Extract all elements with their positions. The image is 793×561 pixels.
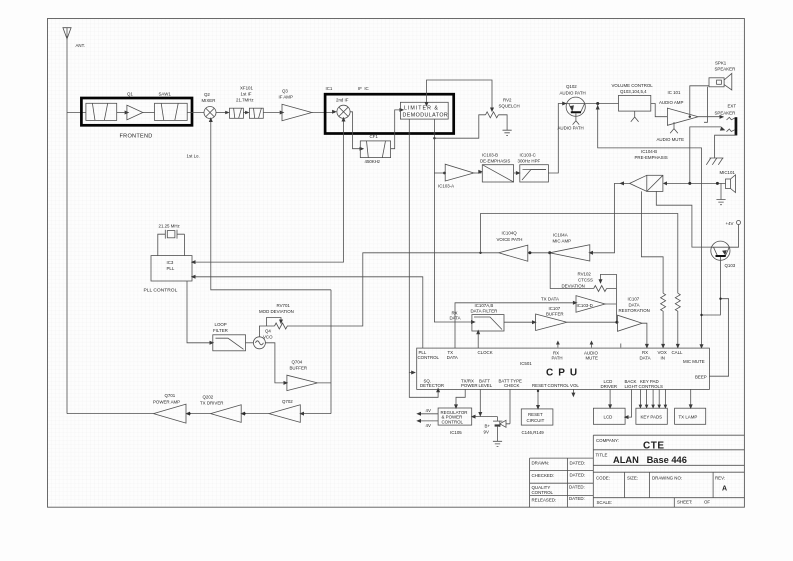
wire mic to ground <box>720 183 722 199</box>
amplifier IC104Q VOICE PATH <box>497 231 528 262</box>
wire jack contact to mic line <box>690 127 721 183</box>
wire squelch feedback to demod top <box>425 80 495 112</box>
amplifier IC104-B PRE-EMPHASIS <box>630 149 668 191</box>
filter XF101 1st IF 21.7MHz <box>225 85 263 118</box>
svg-text:BUFFER: BUFFER <box>290 366 308 371</box>
svg-text:DEMODULATOR: DEMODULATOR <box>403 113 449 119</box>
svg-text:LOOP: LOOP <box>215 322 227 327</box>
svg-text:OF: OF <box>704 500 710 505</box>
pin label BATT LEVEL <box>479 378 493 388</box>
svg-text:Q2: Q2 <box>204 92 210 97</box>
resistor R call <box>675 293 680 347</box>
svg-text:SAW1: SAW1 <box>159 92 172 97</box>
svg-text:Q102: Q102 <box>566 84 577 89</box>
wire PLL to loop filter <box>187 281 212 343</box>
wire squelch right to ground <box>498 115 507 130</box>
svg-text:DATA: DATA <box>450 315 461 320</box>
svg-text:CONTROL VOL: CONTROL VOL <box>548 383 580 388</box>
wire <box>216 112 228 114</box>
wire 4V output lower <box>416 419 438 428</box>
svg-text:LIGHT: LIGHT <box>625 384 638 389</box>
svg-text:PLL: PLL <box>167 266 175 271</box>
node audio-mute tap <box>596 102 599 105</box>
chassis ground at jack <box>706 158 723 165</box>
node demod audio branch <box>443 172 446 175</box>
svg-text:KEY PADS: KEY PADS <box>641 415 663 420</box>
svg-text:CLOCK: CLOCK <box>478 350 493 355</box>
svg-text:SHEET:: SHEET: <box>677 500 692 505</box>
svg-text:RV701: RV701 <box>277 303 291 308</box>
svg-text:LCD: LCD <box>604 415 613 420</box>
svg-text:CONTROL: CONTROL <box>532 490 554 495</box>
svg-text:VCO: VCO <box>263 334 273 339</box>
pin stub unlabeled <box>620 344 622 348</box>
wire jack sleeve to ground <box>715 135 737 158</box>
oscillator Q4 VCO <box>253 328 273 349</box>
title block code row <box>596 476 727 493</box>
node jack-mic junction <box>688 182 691 185</box>
svg-text:RV102: RV102 <box>578 272 592 277</box>
amplifier Q202 TX DRIVER <box>200 394 241 422</box>
svg-text:1st Lo.: 1st Lo. <box>187 154 200 159</box>
svg-text:SPEAKER: SPEAKER <box>715 111 736 116</box>
wire BACK LIGHT to LCD <box>624 389 632 419</box>
svg-text:IN: IN <box>661 355 665 360</box>
amplifier IC104A MIC AMP <box>550 232 590 261</box>
svg-text:Q103,104,5,4: Q103,104,5,4 <box>620 89 647 94</box>
svg-text:PLL CONTROL: PLL CONTROL <box>144 287 178 293</box>
speaker SPK1 <box>709 61 735 91</box>
svg-text:IF IC: IF IC <box>358 86 369 91</box>
wire <box>117 112 125 114</box>
svg-text:9V: 9V <box>484 430 489 435</box>
svg-text:DATA: DATA <box>640 355 651 360</box>
label RX DATA <box>450 310 461 320</box>
svg-text:IC103-B: IC103-B <box>482 153 498 158</box>
svg-text:DATA FILTER: DATA FILTER <box>471 308 498 313</box>
amplifier Q1 <box>125 92 143 120</box>
svg-text:2nd IF: 2nd IF <box>336 98 349 103</box>
title block title row <box>596 452 687 465</box>
wire TX LAMP pin <box>689 389 693 409</box>
svg-text:IC104Q: IC104Q <box>502 231 518 236</box>
svg-text:IC107A,B: IC107A,B <box>475 303 494 308</box>
wire <box>312 112 335 114</box>
svg-text:Q702: Q702 <box>282 399 293 404</box>
ground below battery <box>493 441 502 446</box>
svg-text:FRONTEND: FRONTEND <box>120 133 153 139</box>
wire VCO top to mod pot <box>259 326 266 337</box>
svg-text:SIZE:: SIZE: <box>627 476 638 481</box>
wire <box>263 112 279 114</box>
svg-text:21.25 MHz: 21.25 MHz <box>159 224 180 229</box>
amplifier Q3 IF AMP <box>279 89 312 121</box>
pin label BATT TYPE CHECK <box>499 378 522 388</box>
microphone MIC101 <box>720 170 736 193</box>
svg-text:EXT: EXT <box>728 104 737 109</box>
node mic amp output <box>548 251 551 254</box>
wire pre-emphasis vox tap to resistor <box>641 191 663 293</box>
svg-text:Q1: Q1 <box>127 92 133 97</box>
IC1 IF IC block <box>325 86 454 134</box>
svg-text:CHECK: CHECK <box>504 383 519 388</box>
wire 4V output upper <box>416 408 438 416</box>
page border frame <box>48 19 745 508</box>
svg-text:B+: B+ <box>485 424 491 429</box>
wire audio mute line down-right <box>596 104 704 349</box>
svg-text:CF1: CF1 <box>370 134 379 139</box>
svg-text:CONTROL: CONTROL <box>442 419 464 424</box>
svg-text:TX LAMP: TX LAMP <box>679 415 698 420</box>
wire IC103-D output to ctcss node <box>605 289 616 323</box>
filter IC103-C 300Hz HPF <box>518 153 549 182</box>
svg-text:MOD DEVIATION: MOD DEVIATION <box>259 309 294 314</box>
ground below mic <box>716 200 725 205</box>
amplifier IC103-A <box>438 164 474 188</box>
potentiometer RV102 CTCSS DEVIATION <box>562 272 617 292</box>
wire pre-emphasis to Q103 base <box>656 191 712 247</box>
svg-text:AUDIO PATH: AUDIO PATH <box>560 90 586 95</box>
wire to Q702 <box>302 413 332 415</box>
box REGULATOR & POWER CONTROL IC105 <box>438 408 472 435</box>
svg-text:KEY PAD: KEY PAD <box>640 379 659 384</box>
wire demod output B down to data filter <box>433 119 475 324</box>
svg-text:Q4: Q4 <box>265 328 271 333</box>
wire data filter to buffer <box>504 321 535 323</box>
svg-text:TITLE: TITLE <box>596 452 608 457</box>
pin label VOX IN <box>658 350 667 360</box>
wire <box>187 112 204 114</box>
wire Q103 emitter down to mic mute line <box>702 257 721 315</box>
pin label KEY PAD CONTROLS <box>639 379 663 389</box>
box TX LAMP <box>675 408 706 424</box>
filter LOOP FILTER <box>213 322 246 351</box>
svg-text:DE-EMPHASIS: DE-EMPHASIS <box>480 158 510 163</box>
svg-text:IC103-A: IC103-A <box>438 184 454 189</box>
svg-text:MIC101: MIC101 <box>720 170 736 175</box>
svg-text:TX DRIVER: TX DRIVER <box>200 401 223 406</box>
svg-text:LEVEL: LEVEL <box>479 383 493 388</box>
pin RX PATH stub <box>552 341 563 361</box>
svg-text:LIMITER &: LIMITER & <box>404 105 439 111</box>
wire <box>246 342 254 344</box>
wire audio amp output to ext speaker jack <box>698 115 734 120</box>
filter CF1 450KHz <box>360 134 390 164</box>
filter FL1 <box>86 103 117 120</box>
svg-text:RV2: RV2 <box>503 98 512 103</box>
amplifier Q704 BUFFER <box>287 359 318 390</box>
box LCD <box>593 408 625 424</box>
wire antenna stem <box>66 39 68 414</box>
svg-text:IC107: IC107 <box>628 297 640 302</box>
svg-text:AUDIO AMP: AUDIO AMP <box>659 100 683 105</box>
wire to BATT TYPE CHECK <box>509 389 511 423</box>
wire buffer to data restoration <box>567 321 618 323</box>
wire to IC103-A <box>434 172 445 174</box>
wire <box>514 172 519 174</box>
mixer 2nd IF <box>332 98 350 119</box>
svg-text:MIXER: MIXER <box>202 98 216 103</box>
wire restoration output to CPU RX DATA <box>642 323 647 348</box>
wire VCO output to buffer <box>265 343 285 383</box>
svg-text:IF AMP: IF AMP <box>279 95 293 100</box>
svg-text:IC501: IC501 <box>520 361 532 366</box>
svg-text:IC105: IC105 <box>450 430 462 435</box>
filter IC107A,B DATA FILTER <box>471 303 505 331</box>
svg-text:ALAN Base 446: ALAN Base 446 <box>613 455 687 465</box>
svg-text:POWER AMP: POWER AMP <box>153 399 180 404</box>
wire 2nd LO from mixer to PLL <box>191 117 346 264</box>
svg-text:Q701: Q701 <box>165 393 176 398</box>
wire battery ground <box>497 427 499 442</box>
box RESET CIRCUIT C146,R149 <box>521 409 553 435</box>
svg-text:COMPANY:: COMPANY: <box>596 438 619 443</box>
svg-text:A: A <box>722 486 727 493</box>
svg-text:CPU: CPU <box>546 368 582 379</box>
IC3 PLL box <box>144 256 193 294</box>
svg-text:DATA: DATA <box>629 302 640 307</box>
svg-text:REV:: REV: <box>715 476 725 481</box>
approvals table <box>530 458 594 507</box>
svg-text:POWER: POWER <box>461 383 478 388</box>
amplifier IC103-D <box>576 296 605 313</box>
crystal 21.25 MHz <box>158 224 185 256</box>
amplifier Q701 POWER AMP <box>153 393 186 423</box>
pin label TX/RX POWER <box>461 378 478 388</box>
svg-text:RESET: RESET <box>532 383 547 388</box>
svg-text:BEEP: BEEP <box>695 375 707 380</box>
svg-text:DATA: DATA <box>447 355 458 360</box>
svg-text:CHECKED:: CHECKED: <box>532 473 555 478</box>
wire BATT LEVEL pin <box>479 389 481 414</box>
svg-text:TX DATA: TX DATA <box>541 297 559 302</box>
wire clock pin <box>476 330 480 349</box>
svg-text:DRAWN:: DRAWN: <box>532 460 550 465</box>
wire Q701 to antenna <box>67 413 154 415</box>
node squelch-demod junction <box>433 137 435 139</box>
svg-text:DEVIATION: DEVIATION <box>562 283 585 288</box>
svg-text:300Hz HPF: 300Hz HPF <box>518 158 541 163</box>
wire TX DATA from CPU to IC103-D <box>455 297 578 349</box>
svg-text:SPK1: SPK1 <box>715 61 727 66</box>
wire speaker second lead <box>704 87 707 123</box>
title block scale row <box>597 500 711 506</box>
wire mixer to CF1 <box>350 112 359 149</box>
svg-text:+4V: +4V <box>726 221 734 226</box>
wire BEEP to Q103 emitter <box>709 299 728 377</box>
svg-text:SPEAKER: SPEAKER <box>715 67 736 72</box>
svg-text:CTE: CTE <box>643 440 665 451</box>
wire loop to SQ detector pin <box>409 373 440 398</box>
jack EXT SPEAKER <box>715 104 738 136</box>
ground below squelch <box>503 130 512 135</box>
amplifier IC107 BUFFER <box>536 306 567 330</box>
wire RV102 left to mic amp output <box>550 253 594 289</box>
svg-text:FILTER: FILTER <box>213 328 228 333</box>
wire mic lead <box>665 182 726 184</box>
title block company row <box>596 438 665 452</box>
svg-text:CIRCUIT: CIRCUIT <box>527 418 545 423</box>
wire buffer output junction <box>318 290 331 414</box>
svg-text:Q704: Q704 <box>292 359 303 364</box>
svg-text:4V: 4V <box>426 408 431 413</box>
wire squelch left to demod output <box>434 115 485 138</box>
potentiometer RV701 MOD DEVIATION <box>259 303 294 329</box>
wire battery to regulator <box>473 416 497 418</box>
svg-text:DATED:: DATED: <box>569 496 585 501</box>
wire Q102 to volume control <box>585 103 618 105</box>
amplifier Q702 <box>269 399 300 422</box>
svg-text:DRAWING NO:: DRAWING NO: <box>652 476 682 481</box>
svg-text:IC 101: IC 101 <box>668 90 681 95</box>
pin label SQ DETECTOR <box>420 378 444 388</box>
limiter and demodulator box <box>400 102 448 119</box>
box VOLUME CONTROL Q103,104,5,4 <box>612 83 654 111</box>
op-amp IC101 AUDIO AMP <box>659 90 698 125</box>
svg-text:Q3: Q3 <box>282 89 288 94</box>
svg-text:21.7MHz: 21.7MHz <box>236 97 254 102</box>
wire mic amp to voice path <box>528 252 550 254</box>
wires key pad controls <box>639 389 668 408</box>
svg-text:SCALE:: SCALE: <box>597 500 613 505</box>
svg-text:SQUELCH: SQUELCH <box>499 104 520 109</box>
wire <box>474 172 482 174</box>
node vox call tap <box>479 252 481 254</box>
filter SAW1 <box>155 92 188 121</box>
svg-text:DETECTOR: DETECTOR <box>420 383 444 388</box>
svg-text:XF101: XF101 <box>240 85 253 90</box>
pin label LCD DRIVER <box>601 379 618 389</box>
svg-text:AUDIO MUTE: AUDIO MUTE <box>657 137 685 142</box>
transistor Q102 AUDIO PATH <box>558 84 586 130</box>
svg-text:IC3: IC3 <box>167 260 174 265</box>
wire vox tap up and over to call resistor <box>481 214 678 294</box>
svg-text:CALL: CALL <box>672 350 684 355</box>
node mic junction <box>716 182 719 185</box>
svg-text:RESTORATION: RESTORATION <box>619 308 650 313</box>
svg-text:IC103-D: IC103-D <box>577 303 593 308</box>
svg-text:ANT.: ANT. <box>76 43 86 48</box>
amplifier IC107 DATA RESTORATION <box>618 297 650 332</box>
svg-text:RELEASED:: RELEASED: <box>532 497 557 502</box>
svg-text:PRE-EMPHASIS: PRE-EMPHASIS <box>635 155 668 160</box>
wire voice path output to VCO mod line <box>292 253 499 326</box>
svg-text:DATED:: DATED: <box>569 485 585 490</box>
svg-text:BACK: BACK <box>625 379 637 384</box>
pin label RX DATA <box>640 350 651 360</box>
FRONTEND block <box>81 98 192 125</box>
battery B+ 9V <box>484 417 503 435</box>
antenna ANT <box>63 28 85 48</box>
svg-text:DATED:: DATED: <box>570 460 586 465</box>
svg-text:IC1: IC1 <box>326 86 333 91</box>
wire volume to audio amp <box>651 104 668 117</box>
mixer Q2 <box>202 92 217 119</box>
svg-text:IC104-B: IC104-B <box>641 149 657 154</box>
wire <box>143 112 155 114</box>
wire Q702 to Q202 <box>243 413 270 415</box>
resistor R vox <box>661 293 666 347</box>
title block frame <box>593 435 744 507</box>
wire speaker SPK1 lead <box>690 86 709 117</box>
wire HPF up to Q102 <box>548 104 565 174</box>
svg-text:PATH: PATH <box>552 356 563 361</box>
svg-text:CONTROL: CONTROL <box>418 355 440 360</box>
svg-text:CTCSS: CTCSS <box>578 278 593 283</box>
node restoration input <box>615 321 618 324</box>
terminal +4V <box>726 221 741 226</box>
wire Q202 to Q701 <box>187 413 210 415</box>
wire pre-emphasis output to mic amp <box>588 181 629 254</box>
svg-text:CODE:: CODE: <box>596 476 610 481</box>
CPU IC501 box <box>417 348 710 389</box>
wire antenna to frontend <box>67 112 86 114</box>
svg-text:DRIVER: DRIVER <box>601 384 618 389</box>
wire RESET pin to reset circuit <box>536 389 540 409</box>
filter IC103-B DE-EMPHASIS <box>480 153 514 182</box>
svg-text:RESET: RESET <box>528 412 543 417</box>
control symbol audio mute <box>657 122 685 142</box>
svg-text:C146,R149: C146,R149 <box>522 430 545 435</box>
svg-text:CONTROLS: CONTROLS <box>639 384 663 389</box>
pin AUDIO MUTE stub <box>584 341 598 361</box>
wire LCD driver pin <box>608 389 612 409</box>
wire TX/RX POWER to regulator <box>454 389 465 409</box>
svg-text:MIC MUTE: MIC MUTE <box>683 359 705 364</box>
svg-text:LCD: LCD <box>604 379 613 384</box>
svg-text:BUFFER: BUFFER <box>546 311 564 316</box>
node voice path input <box>528 251 531 254</box>
pin label TX DATA <box>447 350 458 360</box>
svg-text:Q202: Q202 <box>203 394 214 399</box>
wire LO feed to Q2 mixer <box>211 120 331 290</box>
potentiometer RV2 SQUELCH <box>486 98 520 118</box>
svg-text:VOICE PATH: VOICE PATH <box>497 237 523 242</box>
svg-text:1st IF: 1st IF <box>241 91 252 96</box>
transistor Q103 <box>711 241 736 268</box>
node speaker tap <box>689 116 691 118</box>
diode battery check <box>500 420 510 427</box>
svg-text:Q103: Q103 <box>725 263 736 268</box>
svg-text:DATED:: DATED: <box>570 472 586 477</box>
control symbol under volume box <box>631 111 639 122</box>
wire demod output A down to CPU left <box>408 119 416 374</box>
svg-text:IC104A: IC104A <box>553 232 568 237</box>
wire Q103 collector to +4V <box>730 225 739 248</box>
svg-text:4V: 4V <box>426 423 431 428</box>
svg-text:VOLUME CONTROL: VOLUME CONTROL <box>612 83 654 88</box>
svg-text:AUDIO PATH: AUDIO PATH <box>558 126 584 131</box>
svg-text:MIC AMP: MIC AMP <box>553 238 572 243</box>
pin label PLL CONTROL <box>418 350 440 360</box>
wire PLL control to CPU <box>191 275 423 348</box>
svg-text:IC103-C: IC103-C <box>520 153 536 158</box>
wire CF1 to limiter <box>391 110 400 149</box>
box KEY PADS <box>636 408 667 424</box>
pin label BACK LIGHT <box>625 379 638 389</box>
pin CONTROL VOL stub <box>571 389 575 397</box>
svg-text:MUTE: MUTE <box>586 356 599 361</box>
svg-text:450KHz: 450KHz <box>365 159 381 164</box>
